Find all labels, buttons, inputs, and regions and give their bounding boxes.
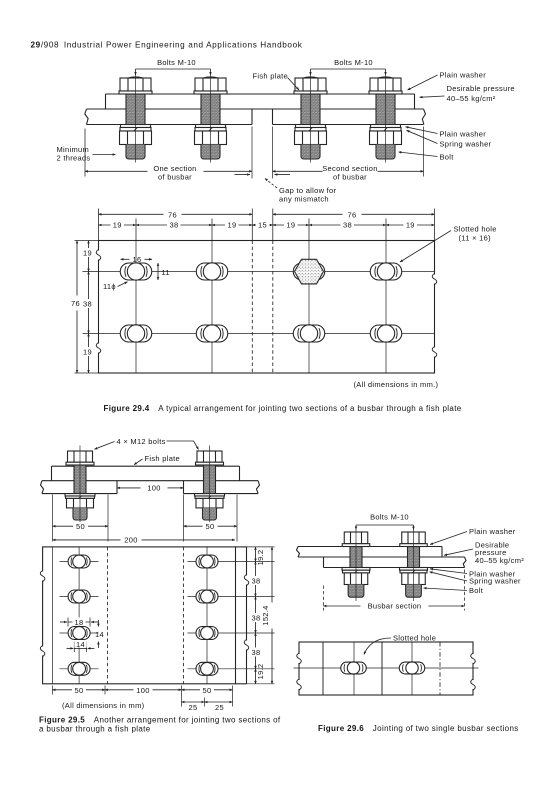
svg-text:Plain washer: Plain washer (440, 71, 487, 80)
svg-text:Plain washer: Plain washer (469, 527, 516, 536)
busbar edge beyond plate (Fig 29.5 plan view) (236, 547, 249, 684)
svg-text:25: 25 (189, 703, 198, 712)
bolt head in hole r1c3 (Fig 29.4 plan) (293, 259, 325, 284)
centre line column 3 (Fig 29.4 plan) (308, 241, 310, 374)
svg-text:16: 16 (133, 255, 142, 264)
svg-text:19: 19 (228, 221, 237, 230)
label Bolts M-10 left (Fig 29.4) (136, 58, 211, 75)
svg-text:15: 15 (258, 221, 267, 230)
busbar upper section (Fig 29.6 side view) (297, 547, 443, 558)
label Plain washer top (Fig 29.4) (408, 71, 487, 91)
svg-text:a busbar through a fish plate: a busbar through a fish plate (39, 724, 151, 733)
slotted hole r2c2 (Fig 29.4 plan) (196, 325, 228, 342)
busbar first section (Fig 29.4) (85, 109, 252, 125)
label Fish plate (Fig 29.4) (253, 72, 300, 91)
svg-text:Spring washer: Spring washer (469, 577, 521, 586)
svg-text:Bolts M-10: Bolts M-10 (370, 513, 409, 522)
svg-text:Figure 29.6 Jointing of two s: Figure 29.6 Jointing of two single busba… (318, 724, 519, 733)
slotted hole R2 (Fig 29.5 plan) (196, 590, 218, 603)
centre line hole row 2 (Fig 29.4 plan) (99, 333, 435, 335)
centre line row (Fig 29.6 plan) (294, 667, 479, 669)
dimension column 19.2/38/38/38/19.2 (Fig 29.5 plan) (227, 547, 275, 684)
dimension 76 left (Fig 29.4 plan) (99, 209, 253, 241)
bolt 2 (Fig 29.4 side view) (194, 73, 227, 163)
label Bolts M-10 (Fig 29.6) (356, 513, 414, 530)
hidden busbar end right (Fig 29.5 plan) (183, 547, 185, 684)
svg-text:of busbar: of busbar (333, 173, 367, 182)
svg-text:76: 76 (71, 299, 80, 308)
svg-text:Second section: Second section (322, 164, 377, 173)
bolt right (Fig 29.6 side view) (400, 528, 428, 602)
svg-text:Plain washer: Plain washer (440, 130, 487, 139)
hidden busbar end left (Fig 29.5 plan) (107, 547, 109, 684)
dimension 18 (Fig 29.5 plan) (60, 618, 98, 627)
svg-text:50: 50 (75, 686, 84, 695)
svg-text:40–55 kg/cm²: 40–55 kg/cm² (475, 556, 524, 565)
hole row centre ticks (Fig 29.5 plan) (60, 562, 227, 669)
dimension Busbar section (Fig 29.6) (324, 570, 465, 611)
dimension 16 on hole r1c1 (Fig 29.4 plan) (121, 255, 153, 264)
svg-text:4 × M12 bolts: 4 × M12 bolts (117, 437, 166, 446)
label Slotted hole (Fig 29.4 plan) (400, 225, 497, 263)
label Spring washer (Fig 29.6) (430, 572, 522, 586)
dimension Second section of busbar (Fig 29.4) (273, 127, 424, 182)
svg-text:11ϕ: 11ϕ (103, 282, 116, 291)
label Minimum 2 threads (Fig 29.4) (57, 145, 116, 162)
label Slotted hole (Fig 29.6 plan) (364, 634, 436, 655)
bolt 4 (Fig 29.4 side view) (369, 73, 402, 163)
svg-text:50: 50 (203, 686, 212, 695)
svg-text:Fish plate: Fish plate (145, 454, 181, 463)
slotted hole L3 (Fig 29.5 plan) (68, 627, 90, 640)
centre line right column (Fig 29.5 plan) (206, 547, 208, 684)
fish plate (Fig 29.5 side view) (42, 466, 258, 481)
svg-text:19: 19 (406, 221, 415, 230)
slotted hole r2c1 (Fig 29.4 plan) (120, 325, 152, 342)
slotted hole r1c1 (Fig 29.4 plan) (120, 263, 152, 280)
label Desirable pressure (Fig 29.4) (420, 84, 515, 103)
label 4 x M12 bolts (Fig 29.5) (95, 437, 199, 450)
svg-text:Figure 29.4 A typical arrange: Figure 29.4 A typical arrangement for jo… (104, 404, 462, 413)
centre line hole row 1 (Fig 29.4 plan) (99, 271, 435, 273)
fish plate plan outline (Fig 29.5 plan view) (40, 547, 235, 684)
busbar right section (Fig 29.5 side view) (184, 481, 260, 494)
slotted hole r2c3 (Fig 29.4 plan) (293, 325, 325, 342)
svg-text:14: 14 (76, 640, 85, 649)
bolt left (Fig 29.6 side view) (342, 528, 370, 602)
bolt 3 (Fig 29.4 side view) (294, 73, 327, 163)
label Fish plate (Fig 29.5) (134, 454, 180, 465)
svg-text:Bolts M-10: Bolts M-10 (157, 58, 196, 67)
dimension 200 (Fig 29.5) (53, 536, 236, 545)
label Spring washer (Fig 29.4) (407, 130, 492, 148)
centre line column 4 (Fig 29.4 plan) (385, 241, 387, 374)
label Gap to allow for any mismatch (Fig 29.4) (265, 179, 337, 204)
busbar lower section (Fig 29.6 side view) (324, 557, 467, 568)
centre line column 1 (Fig 29.4 plan) (135, 241, 137, 374)
centre line hole L (Fig 29.6 plan) (353, 642, 355, 695)
hidden upper busbar end (Fig 29.6 plan) (439, 642, 441, 695)
slotted hole right (Fig 29.6 plan) (399, 662, 425, 674)
svg-text:Desirable pressure: Desirable pressure (447, 84, 515, 93)
bolt left (Fig 29.5 side view) (65, 446, 95, 524)
dimension 50/100/50 bottom (Fig 29.5 plan) (53, 686, 233, 707)
svg-text:Bolt: Bolt (440, 153, 455, 162)
svg-text:any mismatch: any mismatch (279, 194, 329, 203)
svg-text:Fish plate: Fish plate (253, 72, 289, 81)
busbar left section (Fig 29.5 side view) (41, 481, 118, 494)
busbar second section (Fig 29.4) (273, 109, 426, 125)
svg-text:One section: One section (153, 164, 196, 173)
svg-text:25: 25 (215, 703, 224, 712)
label Plain washer lower (Fig 29.4) (406, 127, 487, 139)
slotted hole r1c2 (Fig 29.4 plan) (196, 263, 228, 280)
slotted hole R1 (Fig 29.5 plan) (196, 555, 218, 568)
centre line left column (Fig 29.5 plan) (78, 547, 80, 684)
svg-text:38: 38 (170, 221, 179, 230)
bolt right (Fig 29.5 side view) (195, 446, 225, 524)
extension line through plate (Fig 29.5 plan) (52, 547, 54, 684)
joint line (Fig 29.6 plan) (381, 642, 383, 695)
busbar plan outline (Fig 29.6 plan view) (297, 642, 476, 695)
svg-text:Bolt: Bolt (469, 586, 484, 595)
svg-text:38: 38 (252, 648, 261, 657)
slotted hole L1 (Fig 29.5 plan) (68, 555, 90, 568)
slotted hole left (Fig 29.6 plan) (341, 662, 367, 674)
label Bolts M-10 right (Fig 29.4) (311, 58, 386, 75)
lower busbar end line (Fig 29.6 plan) (322, 642, 324, 695)
svg-text:18: 18 (75, 618, 84, 627)
svg-text:152.4: 152.4 (261, 605, 270, 625)
hidden joint line right (Fig 29.4 plan) (272, 241, 274, 374)
dimension 50 left (Fig 29.5 side view) (53, 495, 109, 542)
centre line hole R (Fig 29.6 plan) (411, 642, 413, 695)
slotted hole r1c4 (Fig 29.4 plan) (370, 263, 402, 280)
hidden joint line left (Fig 29.4 plan) (251, 241, 253, 374)
label Plain washer top (Fig 29.6) (430, 527, 516, 545)
bolt 1 (Fig 29.4 side view) (119, 73, 152, 163)
dimension 19/38/19 vertical (Fig 29.4 plan) (82, 241, 95, 374)
dimension 14 vertical (Fig 29.5 plan) (95, 620, 104, 648)
svg-text:of busbar: of busbar (158, 173, 192, 182)
label Bolt (Fig 29.6) (424, 586, 484, 595)
svg-text:Spring washer: Spring washer (440, 140, 492, 149)
slotted hole L2 (Fig 29.5 plan) (68, 590, 90, 603)
svg-text:38: 38 (83, 300, 92, 309)
dimension One section of busbar (Fig 29.4) (85, 127, 252, 182)
svg-text:19.2: 19.2 (256, 664, 265, 680)
label Desirable pressure (Fig 29.6) (444, 541, 524, 566)
svg-text:19: 19 (83, 249, 92, 258)
svg-text:Bolts M-10: Bolts M-10 (334, 58, 373, 67)
dimension 76 right (Fig 29.4 plan) (273, 209, 435, 241)
svg-text:29/908 Industrial Power Engine: 29/908 Industrial Power Engineering and … (31, 41, 303, 50)
slotted hole L4 (Fig 29.5 plan) (68, 662, 90, 675)
label Plain washer lower (Fig 29.6) (430, 569, 516, 579)
svg-text:50: 50 (206, 522, 215, 531)
dimension 14 below (Fig 29.5 plan) (67, 640, 95, 652)
fish plate plan outline (Fig 29.4 plan view) (96, 241, 437, 374)
svg-text:(All dimensions in mm): (All dimensions in mm) (62, 701, 145, 710)
svg-text:38: 38 (252, 614, 261, 623)
svg-text:(11 × 16): (11 × 16) (459, 234, 492, 243)
slotted hole R4 (Fig 29.5 plan) (196, 662, 218, 675)
svg-text:Busbar section: Busbar section (368, 602, 422, 611)
svg-text:76: 76 (348, 210, 357, 219)
label 11 dia (Fig 29.4 plan) (103, 282, 128, 291)
dimension gap arrows (Fig 29.4) (235, 174, 291, 176)
slotted hole r2c4 (Fig 29.4 plan) (370, 325, 402, 342)
svg-text:(All dimensions in mm.): (All dimensions in mm.) (354, 380, 439, 389)
dimension row 19/38/19/15/19/38/19 (Fig 29.4 plan) (99, 209, 435, 241)
svg-text:19: 19 (83, 348, 92, 357)
dimension 152.4 (Fig 29.5 plan) (261, 547, 273, 684)
svg-text:19.2: 19.2 (256, 550, 265, 566)
fish plate (Fig 29.4 side view) (87, 94, 424, 109)
svg-text:38: 38 (343, 221, 352, 230)
svg-text:14: 14 (95, 630, 104, 639)
svg-text:100: 100 (136, 686, 149, 695)
svg-text:38: 38 (252, 577, 261, 586)
dimension 76 left side vertical (Fig 29.4 plan) (71, 241, 98, 374)
svg-text:19: 19 (113, 221, 122, 230)
label Bolt (Fig 29.4) (399, 152, 455, 162)
svg-text:Figure 29.5 Another arrangeme: Figure 29.5 Another arrangement for join… (39, 716, 281, 725)
svg-text:19: 19 (286, 221, 295, 230)
slotted hole R3 (Fig 29.5 plan) (196, 627, 218, 640)
dimension 25/25 (Fig 29.5 plan) (182, 698, 233, 713)
dimension 11 on hole r1c1 (Fig 29.4 plan) (158, 263, 170, 280)
svg-text:40–55 kg/cm²: 40–55 kg/cm² (447, 94, 496, 103)
svg-text:50: 50 (76, 522, 85, 531)
svg-text:Slotted hole: Slotted hole (454, 225, 497, 234)
svg-text:76: 76 (168, 210, 177, 219)
dimension 100 (Fig 29.5 side view) (117, 484, 184, 493)
svg-text:200: 200 (124, 536, 137, 545)
svg-text:11: 11 (162, 268, 170, 277)
centre line column 2 (Fig 29.4 plan) (211, 241, 213, 374)
dimension 50 right (Fig 29.5 side view) (184, 495, 238, 542)
svg-text:100: 100 (147, 484, 160, 493)
svg-text:Slotted hole: Slotted hole (393, 634, 436, 643)
